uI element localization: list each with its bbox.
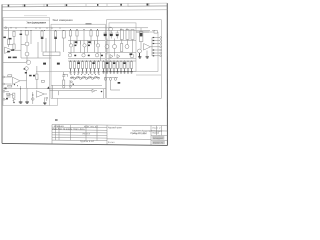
resistor R35 xyxy=(139,32,143,42)
wire xyxy=(21,57,34,59)
op-amp DA4 xyxy=(5,47,13,53)
label mark X6 xyxy=(6,98,8,99)
output terminal XS6 xyxy=(160,52,162,54)
label K1 value xyxy=(43,63,46,65)
wire inner top line A xyxy=(3,19,50,21)
title block outer top xyxy=(52,125,167,126)
wire xyxy=(100,53,102,62)
wire xyxy=(26,70,28,88)
wire xyxy=(44,93,47,95)
diode VD3 xyxy=(110,55,113,59)
output terminal XS3 xyxy=(160,43,162,45)
diode VD5 xyxy=(92,89,95,92)
capacitor C5 xyxy=(116,31,120,39)
label VT1 xyxy=(20,34,23,35)
svg-text:Листов: Листов xyxy=(152,132,159,134)
label mark lowleft xyxy=(4,88,6,90)
resistor R5 xyxy=(8,85,12,87)
wire xyxy=(121,40,123,44)
transformer T1 winding 1 xyxy=(120,30,123,40)
wire xyxy=(131,53,133,55)
resistor R7 xyxy=(41,31,43,37)
small label mark xyxy=(86,23,92,25)
ground xyxy=(43,103,46,104)
tb vertical main divider xyxy=(106,125,108,144)
resistor R29 xyxy=(113,62,115,69)
transistor VT12 xyxy=(113,45,117,49)
wire xyxy=(5,76,12,78)
wire xyxy=(26,35,28,42)
wire stub to XS7 xyxy=(152,55,160,57)
wire xyxy=(3,62,26,64)
wire stub to XS1 xyxy=(152,37,160,39)
label dark mark xyxy=(110,34,113,36)
transistor VT19 xyxy=(32,98,35,101)
resistor R27 xyxy=(106,62,108,69)
label dark mark xyxy=(88,55,90,57)
label VT3 mark xyxy=(24,68,26,69)
wire stub to XS5 xyxy=(152,49,160,51)
transistor VT3 xyxy=(26,60,30,64)
section box B xyxy=(51,24,105,98)
op-amp DA2 xyxy=(36,91,44,98)
wire xyxy=(30,31,32,45)
transistor VT16 xyxy=(109,78,112,81)
bottom resistor row section B xyxy=(68,61,105,69)
ground xyxy=(123,69,126,74)
small mark above title block xyxy=(55,119,58,120)
resistor R13 xyxy=(76,31,78,37)
junction dots on row wire xyxy=(70,61,132,62)
resistor R28 xyxy=(109,62,111,69)
wire xyxy=(63,72,65,76)
output terminal XS1 xyxy=(160,37,162,39)
wire xyxy=(111,89,121,91)
wire xyxy=(63,76,65,80)
transistor VT17 xyxy=(114,78,117,81)
label dark mark on R18 xyxy=(77,62,79,64)
gate D6 xyxy=(86,78,88,80)
resistor R18 xyxy=(73,62,75,69)
wire xyxy=(73,41,75,45)
label dark mark xyxy=(75,45,77,47)
tb gray cell 1 xyxy=(152,136,164,140)
wire xyxy=(114,49,116,57)
transistor VT15 xyxy=(104,78,107,81)
sheet outer border right xyxy=(166,3,168,145)
wire xyxy=(13,98,15,102)
svg-text:Лист 2: Лист 2 xyxy=(152,128,161,130)
junction dot xyxy=(20,88,21,89)
transistor VT3b xyxy=(25,67,29,71)
wire xyxy=(51,85,53,98)
component small box xyxy=(42,80,45,82)
resistor R32 xyxy=(123,62,125,69)
wire xyxy=(41,30,43,33)
wire xyxy=(69,80,71,89)
wire xyxy=(8,28,10,39)
label R3 xyxy=(11,49,14,50)
resistor R9 xyxy=(62,31,65,39)
title block outer left xyxy=(51,125,53,144)
wire right entry xyxy=(136,31,155,33)
dark mark row C xyxy=(106,62,108,64)
label DA1 xyxy=(7,51,10,53)
svg-text:Копия: Копия xyxy=(108,142,115,144)
transistor VT18 xyxy=(138,49,142,53)
wire row xyxy=(68,60,105,62)
ground xyxy=(113,69,116,74)
op-amp DA1 xyxy=(13,77,21,84)
section box A xyxy=(3,18,50,106)
wire xyxy=(8,45,10,48)
wire xyxy=(87,41,89,45)
wire xyxy=(55,39,57,52)
resistor R23 xyxy=(93,62,95,69)
wire xyxy=(83,31,85,45)
wire A right step xyxy=(57,98,59,105)
wire xyxy=(45,38,47,52)
resistor R3 xyxy=(13,44,15,49)
ground xyxy=(85,69,88,74)
wire xyxy=(5,83,12,85)
resistor R17 xyxy=(69,62,71,69)
tb vertical Podp xyxy=(85,125,87,141)
wire xyxy=(20,80,27,82)
wire xyxy=(80,41,82,45)
wire xyxy=(13,30,15,33)
label dark mark xyxy=(116,34,119,36)
wire stub to XS4 xyxy=(155,46,160,48)
label R2 xyxy=(9,38,12,40)
gate D4 xyxy=(80,78,82,80)
output terminal XS7 xyxy=(160,55,162,57)
tb horizontal middle xyxy=(107,138,151,140)
mid horizontal line right xyxy=(136,74,161,76)
ground xyxy=(77,69,80,74)
ground xyxy=(81,69,84,74)
wire xyxy=(70,47,72,54)
tb vertical List xyxy=(58,125,60,141)
component U2 xyxy=(7,93,10,95)
wire xyxy=(13,37,15,45)
resistor R31 xyxy=(120,62,122,69)
wire bus2 xyxy=(3,88,106,90)
wire stub to XS6 xyxy=(152,52,160,54)
dark mark row C2 xyxy=(113,62,115,64)
capacitor C6 xyxy=(46,98,48,99)
wire vertical right xyxy=(103,89,105,99)
resistor R25 xyxy=(120,44,122,52)
wire tick xyxy=(13,99,16,101)
ground xyxy=(106,69,109,74)
resistor R10 xyxy=(36,74,38,80)
resistor R6 xyxy=(13,93,15,98)
zone strip dividers xyxy=(23,3,149,6)
descending gate D11 xyxy=(71,81,73,83)
gate D7 xyxy=(89,76,91,78)
ground xyxy=(138,53,141,58)
bus wire 1 across top xyxy=(4,27,149,29)
tb vertical right divider xyxy=(150,126,152,145)
wire row xyxy=(107,58,137,60)
label dark mark (R35 fill) xyxy=(140,33,143,36)
transistor VT4 xyxy=(69,44,72,47)
wire xyxy=(34,57,51,59)
wire xyxy=(55,30,57,33)
label text row xyxy=(8,57,11,59)
resistor R2 xyxy=(13,31,15,36)
wire row xyxy=(68,40,105,42)
label dark mark xyxy=(118,82,121,84)
gate D8 xyxy=(92,78,94,80)
ground xyxy=(69,69,72,74)
wire xyxy=(73,84,75,85)
transistor VT6 xyxy=(96,44,99,47)
transistor VT7 xyxy=(68,54,71,57)
gate D2 xyxy=(74,78,76,80)
ground xyxy=(102,69,105,74)
wire xyxy=(110,80,112,90)
wire xyxy=(59,90,93,92)
capacitor C2 xyxy=(62,75,65,76)
inductor L1 on bus xyxy=(109,27,113,31)
wire xyxy=(84,47,86,54)
wire xyxy=(5,98,8,100)
svg-text:Копировал: Копировал xyxy=(153,138,163,140)
wire xyxy=(26,46,28,52)
label dark mark xyxy=(104,34,107,36)
output terminal XS2 xyxy=(160,40,162,42)
op-amp DA3 xyxy=(144,44,151,51)
input terminal X4 xyxy=(3,83,5,85)
capacitor C4 xyxy=(110,31,114,39)
label dark mark xyxy=(75,41,78,43)
resistor R20 xyxy=(81,62,83,69)
resistor R15 xyxy=(90,31,92,37)
diode VD4 xyxy=(117,55,120,59)
wire xyxy=(46,99,48,101)
svg-text:Иванов: Иванов xyxy=(83,133,91,135)
output terminal XS4 xyxy=(160,46,162,48)
wire row xyxy=(107,52,137,54)
wire xyxy=(151,46,156,48)
wire xyxy=(44,97,46,103)
transistor VT13 xyxy=(125,45,129,49)
wire bus1 xyxy=(51,84,102,86)
wire xyxy=(26,88,28,102)
wire xyxy=(20,31,22,59)
section box C inner xyxy=(109,23,136,72)
wire y32 right xyxy=(136,31,154,33)
wire row xyxy=(107,40,137,42)
resistor R4 xyxy=(8,75,12,77)
wire xyxy=(5,90,9,92)
zone strip top line xyxy=(2,3,167,4)
wire xyxy=(146,51,148,57)
ground xyxy=(19,102,23,103)
wire xyxy=(127,40,129,45)
input terminal X3 xyxy=(3,76,5,78)
transformer T1 winding 2 xyxy=(126,30,129,40)
label text row b xyxy=(13,57,17,59)
junction dot xyxy=(17,85,18,86)
label dark mark xyxy=(101,55,103,57)
bus terminal circle xyxy=(5,27,7,29)
ground xyxy=(109,69,112,74)
tb horizontal rows left xyxy=(52,126,107,129)
svg-text:Формат А3: Формат А3 xyxy=(153,141,163,144)
gate D10 xyxy=(98,77,100,79)
transistor VT14 xyxy=(130,54,134,58)
wire xyxy=(106,39,108,45)
svg-text:Группа 4-АТ: Группа 4-АТ xyxy=(80,140,95,143)
wire right inner edge xyxy=(157,32,159,72)
wire xyxy=(97,36,99,44)
ground xyxy=(97,69,100,74)
chain junction dots xyxy=(71,74,100,79)
transistor VT1 xyxy=(25,42,29,46)
svg-text:Прибор РП-140М: Прибор РП-140М xyxy=(131,132,147,135)
gate D3 xyxy=(77,76,79,78)
wire A bottom extension xyxy=(50,105,58,107)
wire xyxy=(36,66,38,74)
resistor R19 xyxy=(77,62,79,69)
wire stub to XS3 xyxy=(152,43,160,45)
wire xyxy=(94,41,96,53)
capacitor C1 xyxy=(7,96,11,97)
terminal tick marks xyxy=(153,37,154,57)
label R8 value xyxy=(54,37,57,39)
ground xyxy=(127,69,130,74)
bus wire 2 across top xyxy=(4,30,151,32)
ground xyxy=(116,69,119,74)
wire small component top xyxy=(63,74,68,77)
gate D5 xyxy=(83,76,85,78)
svg-text:АБВГ.091.02: АБВГ.091.02 xyxy=(84,125,98,128)
tb vertical Izm xyxy=(55,125,57,141)
tb vertical Ndoc xyxy=(70,125,72,141)
svg-text:Курсовой проект: Курсовой проект xyxy=(108,126,122,129)
resistor R26 xyxy=(102,62,104,69)
resistor R22 xyxy=(89,62,91,69)
wire row xyxy=(68,58,105,60)
input terminal X6 xyxy=(3,98,5,100)
wire xyxy=(76,36,78,44)
label VT3 xyxy=(29,75,31,77)
transformer T1 winding 3 xyxy=(131,30,134,40)
wire stub to XS2 xyxy=(152,40,160,42)
sheet outer border bottom xyxy=(2,143,168,145)
wire xyxy=(140,42,142,50)
junction dark dot xyxy=(73,84,74,85)
wire xyxy=(13,49,22,51)
bus junction dots xyxy=(10,27,127,31)
descending gate D12 xyxy=(70,85,72,87)
label R10 value xyxy=(33,75,35,77)
label dark mark xyxy=(88,41,91,43)
relay K1 xyxy=(43,52,60,56)
bottom resistor row section C xyxy=(102,61,136,69)
frame inner top line xyxy=(2,9,167,12)
wire xyxy=(80,41,82,53)
wire xyxy=(26,56,28,63)
gate D1 xyxy=(71,77,73,79)
resistor R33 xyxy=(127,62,129,69)
wire xyxy=(41,39,43,52)
ground xyxy=(146,57,149,58)
transistor VT5 xyxy=(83,44,86,47)
gate D9 xyxy=(95,76,97,78)
label dark mark xyxy=(130,53,133,55)
wire xyxy=(90,36,92,44)
wire xyxy=(114,39,116,45)
label dark mark xyxy=(74,55,76,57)
junction dot xyxy=(13,102,14,103)
junction dark dot xyxy=(101,91,103,93)
label R1 xyxy=(3,37,6,39)
zone strip bottom line xyxy=(2,6,167,7)
label C2 value xyxy=(57,63,60,65)
ground xyxy=(93,69,96,74)
wire right edge xyxy=(32,92,34,104)
component box K xyxy=(25,30,28,35)
wire xyxy=(37,42,39,58)
svg-text:Узел формирования: Узел формирования xyxy=(27,21,47,25)
wire xyxy=(87,45,89,53)
small component right top xyxy=(154,31,157,34)
wire row xyxy=(107,60,137,62)
label dark mark xyxy=(88,45,90,47)
resistor R24 xyxy=(97,62,99,69)
section box C xyxy=(107,20,162,99)
resistor R30 xyxy=(116,62,118,69)
tb vertical Data xyxy=(96,125,98,141)
lower-left cluster of section B xyxy=(36,80,97,104)
transistor VT11 xyxy=(105,45,109,49)
wire xyxy=(73,45,75,53)
wire xyxy=(63,38,65,52)
resistor R12 xyxy=(69,31,71,37)
wire xyxy=(20,86,22,102)
wire xyxy=(97,47,99,54)
junction dot xyxy=(32,94,33,95)
svg-text:Изм. Лист № докум. Подп. Да: Изм. Лист № докум. Подп. Дата xyxy=(52,128,85,131)
ground xyxy=(73,69,76,74)
transistor VT9 xyxy=(95,54,98,57)
wire xyxy=(10,94,14,96)
tb right rows xyxy=(151,130,167,132)
wire xyxy=(36,80,38,89)
wire xyxy=(104,77,118,79)
dark mark row C3 xyxy=(123,62,125,64)
wire xyxy=(132,40,134,53)
input terminal X5 xyxy=(3,90,5,92)
label mark xyxy=(25,72,27,74)
wire xyxy=(140,28,142,32)
resistor R11 xyxy=(63,80,65,85)
resistor R1 xyxy=(7,39,9,45)
resistor R16 xyxy=(96,31,98,37)
ground xyxy=(130,69,133,74)
wire xyxy=(106,49,108,55)
tb gray cell 2 xyxy=(152,141,165,144)
gate chain wire xyxy=(70,77,100,79)
wire grid bottom line xyxy=(36,71,158,73)
wire xyxy=(70,36,72,44)
ground xyxy=(89,69,92,74)
wire xyxy=(9,44,13,46)
